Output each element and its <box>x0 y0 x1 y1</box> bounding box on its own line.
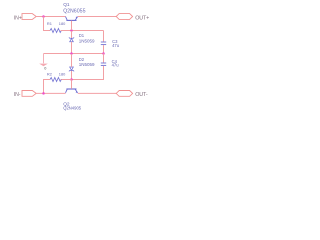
svg-text:Q1: Q1 <box>63 2 70 8</box>
svg-text:D1: D1 <box>79 33 85 38</box>
port OUT- <box>116 91 132 97</box>
wire top rail left (IN+ to Q1 collector) <box>36 16 65 18</box>
wire bottom rail right (Q2 to OUT-) <box>78 92 117 94</box>
svg-text:1N5059: 1N5059 <box>79 39 95 44</box>
svg-text:R2: R2 <box>47 71 52 76</box>
svg-text:180: 180 <box>59 21 66 26</box>
svg-text:Q2N6055: Q2N6055 <box>63 8 86 14</box>
svg-text:47u: 47u <box>112 43 120 48</box>
svg-text:0: 0 <box>44 67 46 71</box>
node bottom junction (43.5,93.4) <box>42 92 45 95</box>
wire left branch down to R1 line <box>44 17 51 31</box>
svg-text:R1: R1 <box>47 21 52 26</box>
wire C4 column from middle rail <box>103 54 105 63</box>
svg-text:180: 180 <box>59 71 66 76</box>
wire C3 to middle rail <box>103 45 105 53</box>
port IN+ <box>22 14 36 20</box>
resistor R1 <box>50 29 61 33</box>
svg-text:1N5059: 1N5059 <box>79 62 95 67</box>
wire C4 to base2 line <box>72 66 104 80</box>
ground <box>39 54 48 71</box>
wire D2 leads <box>71 54 73 79</box>
wire base2 line left to R2 <box>61 79 72 81</box>
wire top rail right (Q1 emitter to OUT+) <box>78 16 117 18</box>
middle rail wire <box>44 53 104 55</box>
port IN- <box>22 91 36 97</box>
node mid junction (71.5,53.5) <box>70 52 73 55</box>
port OUT+ <box>116 14 132 20</box>
diode D1 (zener, cathode up) <box>69 37 74 41</box>
svg-text:Q2N4905: Q2N4905 <box>63 105 82 110</box>
resistor R2 <box>50 78 61 82</box>
capacitor C3 <box>101 42 106 45</box>
transistor Q1 <box>66 16 78 30</box>
wire D1 leads <box>71 31 73 53</box>
wire bottom rail left (IN- to Q2) <box>36 92 65 94</box>
wire R2 left down to bottom rail <box>44 80 51 94</box>
capacitor C4 <box>101 63 106 65</box>
svg-text:OUT-: OUT- <box>135 92 148 98</box>
node mid-right junction (103.5,53.5) <box>102 52 105 55</box>
svg-text:IN-: IN- <box>14 92 21 98</box>
node base2 junction (71.5,79.5) <box>70 78 73 81</box>
node base1 junction (71.5,30.5) <box>70 29 73 32</box>
transistor Q2 <box>66 80 78 93</box>
diode D2 (zener, cathode down) <box>69 67 74 71</box>
svg-text:OUT+: OUT+ <box>135 15 149 21</box>
svg-text:47u: 47u <box>112 63 120 68</box>
svg-text:IN+: IN+ <box>14 15 22 21</box>
node A junction (43.5,16.5) <box>42 15 45 18</box>
wire C3 column top <box>103 31 105 42</box>
wire R1 to base column and on to C3 column <box>61 30 104 32</box>
